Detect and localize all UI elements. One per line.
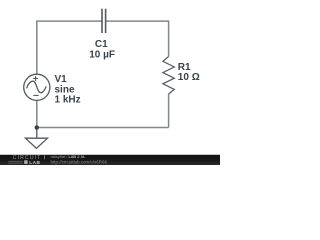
svg-text:http://circuitlab.com/c/x6R68: http://circuitlab.com/c/x6R68	[51, 159, 108, 164]
svg-text:10 Ω: 10 Ω	[178, 72, 200, 83]
svg-text:LAB: LAB	[29, 160, 40, 165]
footer logo separator bar	[43, 155, 46, 159]
svg-text:10 µF: 10 µF	[89, 49, 115, 60]
svg-text:1 kHz: 1 kHz	[55, 95, 81, 106]
capacitor C1	[102, 9, 106, 33]
wire ground stub	[36, 128, 38, 139]
footer logo underline dashes	[8, 160, 23, 163]
footer logo LAB	[24, 160, 27, 164]
junction dot (V1- / R1- / ground net)	[35, 125, 40, 130]
footer bar	[0, 153, 220, 156]
voltage source V1 (sine) body	[24, 74, 50, 100]
ground symbol	[25, 138, 47, 148]
wire right-bottom segment (R1 bottom to bottom rail)	[168, 94, 170, 128]
wire top-right segment (C1 right plate to R1 top)	[106, 21, 169, 56]
wire V1 bottom to junction	[36, 100, 38, 127]
wire bottom rail	[37, 127, 169, 129]
V1 minus sign	[33, 94, 38, 96]
V1 sine wave	[27, 81, 47, 93]
V1 plus sign	[33, 76, 38, 81]
wire top-left segment (V1 top to C1 left plate)	[37, 21, 102, 74]
resistor R1	[163, 57, 174, 95]
